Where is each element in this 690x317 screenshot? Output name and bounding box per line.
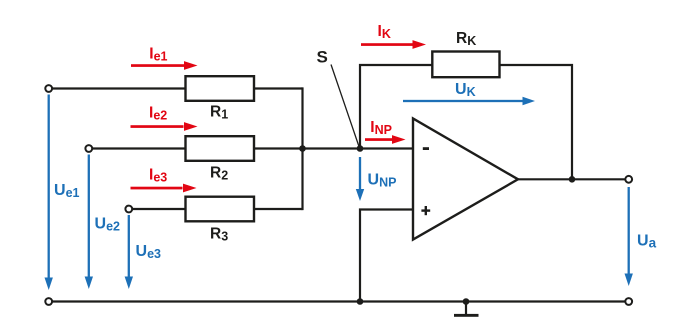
voltage arrow Ue2 [85, 155, 93, 290]
node bus-row2 junction [299, 145, 306, 152]
resistor R1 [186, 76, 255, 101]
node inverting input NP [357, 145, 364, 152]
svg-text:RK: RK [456, 30, 476, 48]
wire row2 input to R2 [90, 147, 185, 149]
op-amp minus sign [423, 147, 429, 150]
node ground junction [463, 298, 470, 305]
svg-text:R2: R2 [210, 165, 228, 183]
current arrow Ie3 [131, 184, 197, 193]
svg-text:UNP: UNP [368, 172, 397, 190]
wire bottom rail [49, 300, 629, 302]
wire row3 input to R3 [130, 208, 185, 210]
current arrow INP [365, 135, 406, 144]
svg-text:IK: IK [378, 23, 391, 41]
terminal Ue1 top [45, 85, 52, 92]
wire summing bus vertical [301, 87, 303, 210]
wire ground stub [465, 302, 467, 315]
voltage arrow Ue1 [45, 95, 53, 291]
terminal Ue3 [125, 206, 132, 213]
node noninverting-bottom junction [357, 298, 364, 305]
voltage arrow UK [403, 97, 535, 105]
svg-text:INP: INP [370, 119, 392, 137]
resistor R2 [186, 136, 255, 161]
svg-text:Ue1: Ue1 [54, 182, 80, 200]
op-amp U1 [413, 119, 518, 240]
svg-text:UK: UK [455, 81, 476, 99]
svg-text:Ua: Ua [637, 233, 657, 251]
wire feedback right to output [499, 65, 572, 179]
voltage arrow UNP [356, 157, 364, 201]
voltage arrow Ue3 [125, 215, 133, 289]
svg-text:S: S [317, 48, 328, 67]
terminal Ue2 [85, 145, 92, 152]
svg-text:R1: R1 [210, 104, 228, 122]
wire row1 input to R1 [50, 87, 185, 89]
wire non-inverting input [360, 210, 412, 302]
resistor R3 [186, 197, 255, 222]
resistor RK [432, 52, 499, 78]
svg-text:Ie3: Ie3 [149, 167, 167, 185]
svg-text:Ue2: Ue2 [95, 216, 121, 234]
current arrow IK [361, 40, 426, 49]
node output-feedback junction [569, 176, 576, 183]
wire R2 to inverting input [253, 147, 413, 149]
svg-text:R3: R3 [210, 226, 228, 244]
wire op-amp output [516, 178, 629, 180]
ground bar [454, 314, 479, 317]
wire feedback node up [360, 65, 434, 149]
wire R1 to bus [253, 87, 303, 89]
terminal bottom left [45, 298, 52, 305]
current arrow Ie1 [131, 61, 198, 70]
terminal bottom right [625, 298, 632, 305]
switch S blade [331, 65, 360, 149]
wire R3 to bus [253, 208, 303, 210]
voltage arrow Ua [625, 187, 633, 286]
op-amp plus sign [421, 206, 430, 215]
svg-text:Ie1: Ie1 [149, 45, 167, 63]
terminal output Ua [625, 176, 632, 183]
svg-text:Ie2: Ie2 [149, 105, 167, 123]
current arrow Ie2 [131, 122, 198, 131]
svg-text:Ue3: Ue3 [136, 243, 162, 261]
